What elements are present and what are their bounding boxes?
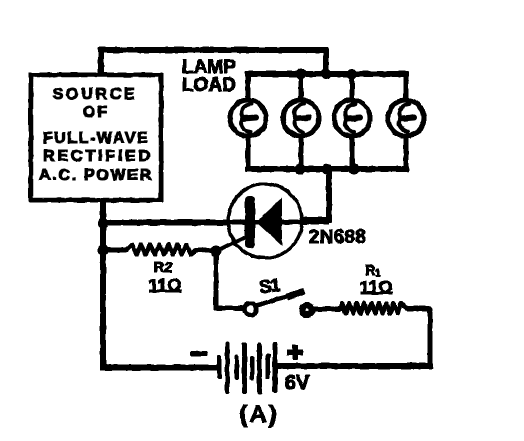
svg-text:RECTIFIED: RECTIFIED (43, 148, 153, 165)
svg-text:R2: R2 (153, 259, 172, 276)
svg-text:SOURCE: SOURCE (53, 86, 138, 103)
svg-text:FULL-WAVE: FULL-WAVE (43, 130, 150, 147)
svg-text:S1: S1 (258, 275, 281, 298)
svg-text:11Ω: 11Ω (359, 278, 392, 298)
svg-text:R1: R1 (365, 262, 381, 279)
svg-text:2N688: 2N688 (309, 227, 366, 248)
svg-text:OF: OF (83, 104, 109, 121)
svg-text:LOAD: LOAD (182, 75, 236, 96)
svg-text:11Ω: 11Ω (148, 276, 181, 296)
svg-text:6V: 6V (285, 372, 310, 394)
svg-text:(A): (A) (239, 401, 278, 428)
svg-text:A.C. POWER: A.C. POWER (39, 167, 153, 184)
